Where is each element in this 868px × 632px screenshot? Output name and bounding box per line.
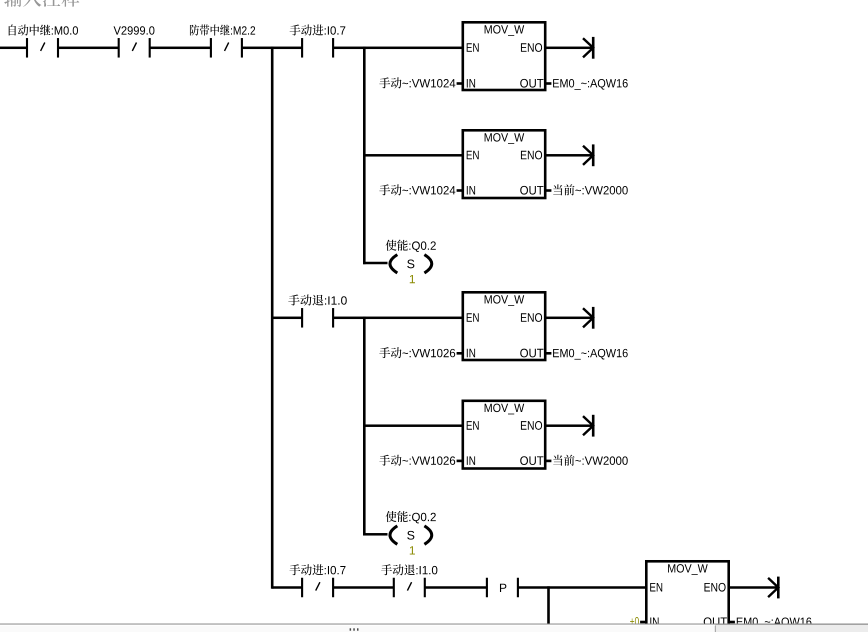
- contact 防带中继:M2.2 NC: [210, 38, 243, 58]
- op-block U1 MOV_W title MOV_W: [485, 25, 525, 36]
- op-block U3 MOV_W pin IN: [467, 349, 475, 358]
- contact 手动退:I1.0 NC rung3: [393, 578, 426, 598]
- coil S1 SET 使能:Q0.2 letter S: [407, 260, 414, 269]
- wire rung1 seg contact3-contact4 with junction: [242, 47, 302, 50]
- wire rung2 from bus to contact: [272, 317, 302, 320]
- coil S2 SET 使能:Q0.2 letter S: [407, 531, 414, 540]
- wire box4 IN stub: [457, 460, 463, 463]
- contact 手动进:I0.7 NO: [301, 38, 334, 58]
- op-block U5 MOV_W pin EN: [650, 583, 662, 592]
- wire box3 ENO to arrow: [547, 317, 593, 320]
- wire rung3 contactP-box5 with junction: [518, 586, 645, 589]
- label 手动进:I0.7 rung3: [289, 564, 345, 575]
- arrow rung3 continuation: [768, 577, 780, 599]
- op-block U4 MOV_W pin ENO: [521, 421, 542, 430]
- wire box3 IN stub: [457, 352, 463, 355]
- wire box1 IN stub: [457, 82, 463, 85]
- op-block U2 MOV_W: [463, 130, 545, 198]
- op-block U5 MOV_W pin OUT: [704, 617, 727, 626]
- wire junctionB to box4 EN: [364, 424, 461, 427]
- wire box2 ENO to arrow: [547, 154, 593, 157]
- operand box2 IN 手动~:VW1024: [379, 184, 455, 195]
- wire box1 ENO to arrow: [547, 47, 593, 50]
- wire box1 OUT stub: [546, 82, 552, 85]
- label 防带中继:M2.2: [190, 25, 255, 36]
- scrollbar track bottom: [0, 624, 868, 632]
- op-block U2 MOV_W pin OUT: [520, 186, 543, 195]
- vertical junction B (to box4 and S coil2): [363, 317, 366, 536]
- op-block U4 MOV_W pin IN: [467, 456, 475, 465]
- contact 手动退:I1.0 NO: [301, 308, 334, 328]
- arrow box4 row continuation: [583, 415, 595, 437]
- operand box3 OUT EM0_~:AQW16: [553, 349, 628, 360]
- wire box5 OUT stub: [729, 621, 735, 624]
- wire box3 OUT stub: [546, 352, 552, 355]
- coil S2 SET 使能:Q0.2 count 1: [410, 546, 415, 554]
- op-block U4 MOV_W pin EN: [467, 421, 479, 430]
- op-block U1 MOV_W pin OUT: [520, 79, 543, 88]
- op-block U4 MOV_W: [463, 401, 545, 469]
- op-block U5 MOV_W: [646, 561, 728, 629]
- wire junctionA to box2 EN: [364, 154, 461, 157]
- op-block U2 MOV_W pin EN: [467, 151, 479, 160]
- vertical junction A (to box2 and S coil): [363, 47, 366, 265]
- operand box5 IN constant +0: [630, 617, 639, 625]
- op-block U5 MOV_W pin ENO: [704, 583, 725, 592]
- wire junctionA to S coil1: [363, 262, 387, 265]
- operand box5 OUT EM0_~:AQW16: [737, 618, 812, 629]
- operand box1 OUT EM0_~:AQW16: [553, 79, 628, 90]
- wire junctionB to S coil2: [363, 533, 387, 536]
- network comment title 输入注释: [4, 0, 79, 7]
- coil S1 SET 使能:Q0.2: [390, 255, 432, 273]
- wire box2 OUT stub: [546, 189, 552, 192]
- op-block U4 MOV_W pin OUT: [520, 456, 543, 465]
- wire box4 ENO to arrow: [547, 424, 593, 427]
- coil S1 SET 使能:Q0.2 operand label 使能:Q0.2: [386, 240, 436, 252]
- contact 手动进:I0.7 NC rung3: [301, 578, 334, 598]
- label 手动退:I1.0 rung2: [288, 295, 346, 306]
- op-block U1 MOV_W: [463, 22, 545, 90]
- wire rung3 contactA-contactB: [333, 586, 394, 589]
- scrollbar track top border: [0, 624, 868, 625]
- wire rung2 contact-box3: [333, 317, 461, 320]
- coil S2 SET 使能:Q0.2 operand label 使能:Q0.2: [386, 511, 436, 523]
- label 手动退:I1.0 rung3: [381, 564, 437, 575]
- contact 自动中继:M0.0 NC: [26, 38, 59, 58]
- label V2999.0: [114, 26, 155, 34]
- op-block U3 MOV_W pin EN: [467, 313, 479, 322]
- wire rung1 seg contact1-contact2: [58, 47, 119, 50]
- op-block U3 MOV_W pin OUT: [520, 349, 543, 358]
- wire rung3 contactB-contactP: [425, 586, 487, 589]
- operand box1 IN 手动~:VW1024: [379, 77, 455, 88]
- wire box5 IN stub: [640, 621, 646, 624]
- op-block U3 MOV_W pin ENO: [521, 313, 542, 322]
- label 自动中继:M0.0: [9, 25, 78, 36]
- wire box4 OUT stub: [546, 460, 552, 463]
- arrow rung1 continuation: [583, 37, 595, 59]
- op-block U3 MOV_W: [463, 292, 545, 360]
- op-block U3 MOV_W title MOV_W: [485, 295, 525, 306]
- label P edge letter: [500, 584, 506, 592]
- op-block U1 MOV_W pin EN: [467, 43, 479, 52]
- label 手动进:I0.7 rung1: [290, 25, 346, 36]
- scrollbar thumb gripper dots: [350, 628, 359, 630]
- arrow rung2 continuation: [583, 307, 595, 329]
- arrow box2 row continuation: [583, 144, 595, 166]
- operand box2 OUT 当前~:VW2000: [553, 184, 628, 195]
- wire rung1 seg contact4-box1: [333, 47, 461, 50]
- scrollbar thumb: [0, 625, 716, 632]
- op-block U2 MOV_W pin ENO: [521, 151, 542, 160]
- wire rung1 seg contact2-contact3: [150, 47, 211, 50]
- coil S1 SET 使能:Q0.2 count 1: [410, 275, 415, 283]
- contact P positive edge: [486, 578, 519, 598]
- wire box5 ENO to arrow: [730, 586, 777, 589]
- op-block U5 MOV_W title MOV_W: [668, 564, 708, 575]
- wire rung1 seg rail-to-contact1: [0, 47, 27, 50]
- vertical main branch bus: [271, 47, 274, 589]
- operand box3 IN 手动~:VW1026: [379, 347, 455, 358]
- op-block U4 MOV_W title MOV_W: [485, 404, 525, 415]
- operand box4 OUT 当前~:VW2000: [553, 455, 628, 466]
- op-block U1 MOV_W pin ENO: [521, 43, 542, 52]
- op-block U1 MOV_W pin IN: [467, 79, 475, 88]
- op-block U2 MOV_W title MOV_W: [485, 133, 525, 144]
- wire rung3 from bus to contactA: [272, 586, 302, 589]
- contact V2999.0 NC: [118, 38, 151, 58]
- operand box4 IN 手动~:VW1026: [379, 455, 455, 466]
- vertical junction rung3 down (continues off-screen): [547, 586, 550, 624]
- op-block U5 MOV_W pin IN: [650, 617, 658, 626]
- wire box2 IN stub: [457, 189, 463, 192]
- coil S2 SET 使能:Q0.2: [390, 526, 432, 544]
- op-block U2 MOV_W pin IN: [467, 186, 475, 195]
